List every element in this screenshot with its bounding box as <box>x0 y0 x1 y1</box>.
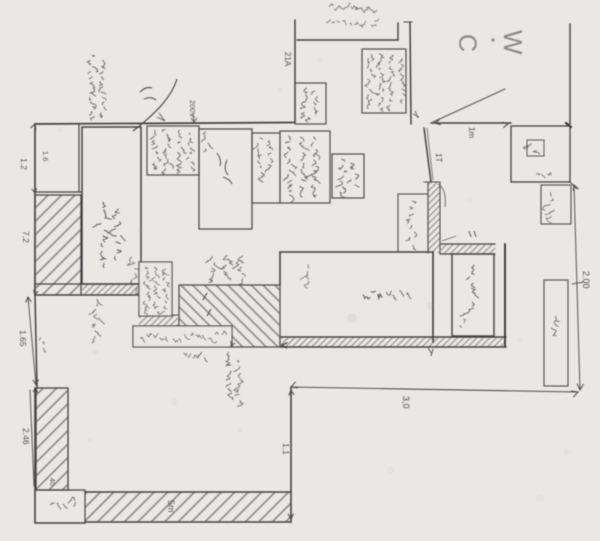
svg-text:1.2: 1.2 <box>19 158 29 170</box>
dim line bottom 3.0 <box>291 387 578 392</box>
tilted double wall segment <box>424 128 431 182</box>
svg-text:200V: 200V <box>188 100 197 118</box>
big room (A-tsukue) <box>280 251 433 253</box>
hatched wall column lower-left <box>36 388 68 490</box>
WC bottom wall <box>431 122 511 124</box>
curved leader <box>133 79 177 131</box>
vertical hatched band right-center <box>428 182 440 253</box>
svg-text:1.1: 1.1 <box>281 443 291 455</box>
top wall <box>35 123 295 125</box>
WC diagonal door swing <box>433 89 505 122</box>
washing room outer right wall <box>504 244 506 346</box>
box C (200V) <box>252 133 280 203</box>
svg-text:21A: 21A <box>283 52 292 67</box>
svg-text:2.00: 2.00 <box>581 271 591 289</box>
wall x=410 top right <box>410 22 411 124</box>
svg-text:W: W <box>498 30 528 55</box>
svg-text:1m: 1m <box>467 127 476 138</box>
bottom-left interior vertical wall <box>290 387 292 522</box>
small text col below band A <box>97 299 103 305</box>
box G (towel small, top) <box>295 83 326 124</box>
text cluster above central hatch (suihanki) <box>205 256 212 262</box>
partition line y=192 top-left pillar room <box>35 191 81 193</box>
svg-text:2.46: 2.46 <box>21 428 31 445</box>
left wall upper <box>34 124 36 295</box>
box F (hoshizaki freezer) <box>362 49 406 113</box>
tall box oshiire right <box>544 280 568 386</box>
small box oshiire upper <box>541 185 571 224</box>
box A (hoshizaki seihyoki) <box>147 126 199 175</box>
box E (tank) <box>332 154 364 198</box>
refrigerator label text <box>103 202 106 207</box>
top structure vertical x=398 <box>397 23 399 40</box>
hatched band under big room <box>281 337 506 347</box>
arrows inside central hatch <box>203 293 211 316</box>
svg-text:40: 40 <box>133 287 140 295</box>
dim line right 2.00 <box>574 185 580 390</box>
top structure horizontal y=40 <box>297 39 398 41</box>
svg-text:C: C <box>453 34 481 52</box>
dim line left mid 1.65 <box>28 297 36 385</box>
hatched band above washing room <box>440 244 495 254</box>
svg-text:40: 40 <box>48 478 55 486</box>
dim 1m on WC bottom <box>435 119 441 125</box>
leader to band corner <box>442 236 456 241</box>
central hatched wall block <box>179 285 280 347</box>
svg-text:3,0: 3,0 <box>401 396 411 409</box>
hatched band A below refrigerator <box>81 284 139 295</box>
corner blob at wall junction <box>566 123 571 127</box>
arc at top of vertical band <box>438 184 445 207</box>
tick marks above wall x160 <box>157 113 165 121</box>
hatched wall column upper-left <box>36 195 81 295</box>
washing room inner box <box>452 254 494 336</box>
hatched band B left of central block <box>139 315 179 327</box>
text row bottom-left box <box>51 503 55 505</box>
exhaust note text columns <box>93 55 95 56</box>
left wall lower <box>34 388 36 523</box>
WC right wall <box>569 24 571 124</box>
box D (100V cooler) <box>280 131 330 203</box>
pillar box top right <box>511 126 570 182</box>
top structure vertical wall x=295 <box>294 20 296 122</box>
left wall middle (slightly tilted) <box>35 295 37 388</box>
svg-text:1.65: 1.65 <box>18 330 28 347</box>
white box1 (gas) with text <box>139 262 172 316</box>
gaiheki marks <box>140 88 156 101</box>
box B (lift) <box>199 129 252 229</box>
bottom-left white box (mono-ire) <box>35 522 85 524</box>
svg-text:5m: 5m <box>166 500 176 513</box>
refrigerator tall rect <box>82 127 141 284</box>
pillar inner square <box>527 140 544 156</box>
faint scan smudges <box>347 313 357 323</box>
white box2 (steam convection) with text <box>133 326 232 347</box>
text above top structure <box>329 4 333 7</box>
dim left lower 2.46 <box>30 390 34 486</box>
text below bottom band (yakitori) <box>227 352 229 359</box>
svg-text:1T: 1T <box>434 153 443 162</box>
small marks above washing band <box>469 231 476 237</box>
towel box (398,194) <box>398 194 428 252</box>
svg-text:7.2: 7.2 <box>21 231 31 243</box>
bottom hatched wall band <box>85 492 291 522</box>
svg-text:1.6: 1.6 <box>41 151 50 161</box>
